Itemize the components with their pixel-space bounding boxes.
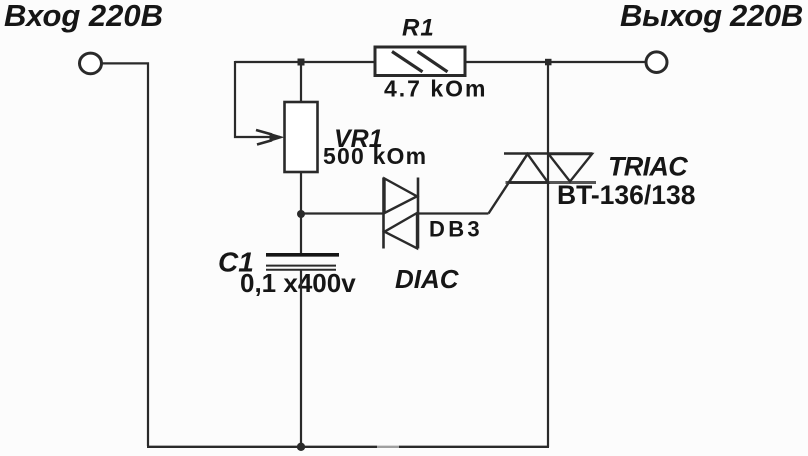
capacitor C1 bottom lead <box>300 270 302 447</box>
arrowhead into VR1 wiper <box>270 133 285 142</box>
node B: junction dot at VR1/C1/DIAC <box>297 210 305 218</box>
wire: down to triac <box>547 62 549 154</box>
wire: input terminal to left rail <box>102 63 149 446</box>
terminal: input <box>80 53 102 74</box>
diac lower triangle <box>385 213 418 248</box>
diac DB3 left bar <box>382 178 385 249</box>
wire: node B to DIAC <box>301 212 383 214</box>
node C: junction at top of triac branch <box>545 59 552 66</box>
svg-text:BT-136/138: BT-136/138 <box>557 180 695 210</box>
potentiometer VR1 body <box>285 102 318 172</box>
capacitor C1 top plate <box>266 253 339 257</box>
wire: VR1 bottom to node B <box>300 172 302 214</box>
diac upper triangle <box>385 179 418 214</box>
wire: bottom rail <box>147 446 549 448</box>
node A: junction dot top of VR1 <box>298 59 305 66</box>
terminal: output <box>646 52 667 73</box>
svg-text:DIAC: DIAC <box>395 264 460 294</box>
resistor R1 slash 1 <box>392 52 423 72</box>
wire: junction down to VR1 <box>300 62 302 102</box>
wire: faded spot on bottom rail <box>377 445 399 449</box>
node: junction dot bottom rail <box>297 443 305 451</box>
wire: top rail right segment <box>465 61 646 63</box>
svg-text:Выхоg 220В: Выхоg 220В <box>620 0 803 33</box>
svg-text:DB3: DB3 <box>429 217 483 242</box>
triac left triangle <box>509 154 548 183</box>
wire: top rail left segment <box>235 61 375 63</box>
wire: VR1 wiper feed (down + arrow line) <box>235 61 280 137</box>
wire: DIAC to gate <box>418 212 489 214</box>
triac right triangle <box>549 154 593 182</box>
wire: gate diagonal <box>489 154 528 214</box>
svg-text:Вхоg 220В: Вхоg 220В <box>4 0 163 33</box>
wire: triac down to bottom rail <box>547 154 549 448</box>
svg-text:500 kOm: 500 kOm <box>323 143 427 169</box>
triac bottom bar <box>506 181 597 184</box>
capacitor C1 top lead <box>300 214 302 254</box>
resistor R1 body <box>375 47 465 76</box>
capacitor C1 bottom plate line 2 <box>266 269 336 271</box>
svg-text:0,1 x400v: 0,1 x400v <box>240 268 356 298</box>
triac top bar <box>504 152 593 155</box>
svg-text:TRIAC: TRIAC <box>608 152 688 182</box>
diac DB3 right bar <box>417 178 420 249</box>
resistor R1 slash 2 <box>418 52 448 72</box>
svg-text:4.7 kOm: 4.7 kOm <box>384 76 488 102</box>
capacitor C1 bottom plate line 1 <box>266 265 336 267</box>
svg-text:R1: R1 <box>402 15 435 42</box>
